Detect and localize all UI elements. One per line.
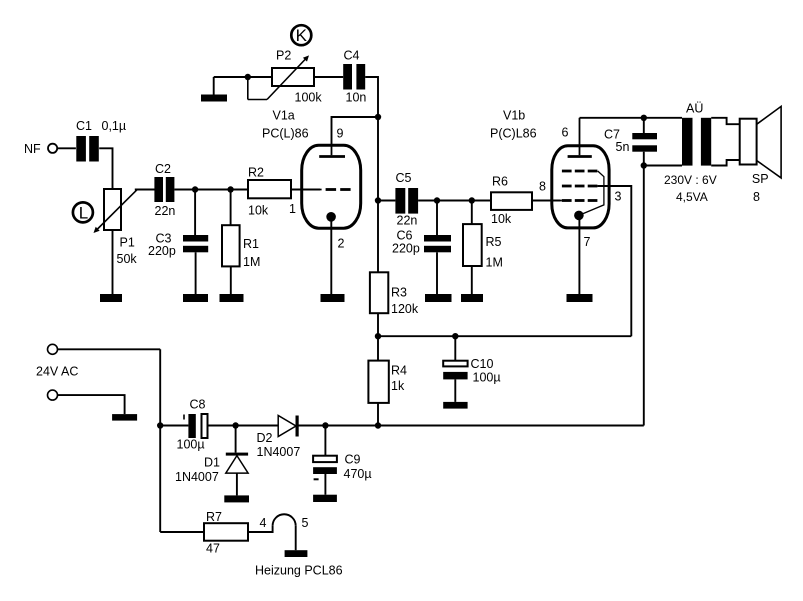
node junction R1 bbox=[227, 186, 233, 192]
node junction C10 bbox=[452, 333, 458, 339]
svg-text:10k: 10k bbox=[248, 204, 269, 218]
svg-text:C10: C10 bbox=[471, 357, 494, 371]
ground (C9) bbox=[313, 495, 337, 502]
wire C5 to R6 bbox=[418, 200, 491, 202]
wire junction to R1 bbox=[230, 190, 232, 226]
svg-text:1k: 1k bbox=[391, 379, 405, 393]
svg-text:4,5VA: 4,5VA bbox=[676, 190, 708, 204]
wire P1 bottom bbox=[112, 230, 114, 294]
svg-text:470µ: 470µ bbox=[344, 467, 372, 481]
wire supply rail bbox=[298, 425, 643, 427]
node junction C7 top bbox=[641, 115, 647, 121]
svg-text:230V : 6V: 230V : 6V bbox=[664, 173, 717, 187]
wire junction to C5 bbox=[378, 200, 395, 202]
node junction C9 bbox=[322, 422, 328, 428]
svg-text:24V AC: 24V AC bbox=[36, 365, 78, 379]
terminal 24V AC (bottom) bbox=[48, 390, 125, 414]
svg-text:C4: C4 bbox=[344, 49, 360, 63]
svg-text:1M: 1M bbox=[486, 256, 503, 270]
svg-text:5: 5 bbox=[302, 516, 309, 530]
svg-text:7: 7 bbox=[584, 235, 591, 249]
svg-text:10n: 10n bbox=[346, 91, 367, 105]
wire transformer bottom bbox=[644, 165, 682, 167]
svg-text:R4: R4 bbox=[391, 364, 407, 378]
svg-text:R3: R3 bbox=[391, 286, 407, 300]
capacitor C7 bbox=[604, 118, 657, 166]
wire plate V1a bbox=[332, 117, 379, 144]
wire P1 wiper to C2 bbox=[135, 189, 155, 191]
capacitor C3 bbox=[148, 232, 208, 259]
terminal 24V AC (top) bbox=[36, 344, 160, 378]
svg-text:220p: 220p bbox=[148, 244, 176, 258]
svg-text:P2: P2 bbox=[276, 49, 291, 63]
diode D2 bbox=[257, 416, 301, 460]
svg-text:1N4007: 1N4007 bbox=[175, 470, 219, 484]
svg-text:10k: 10k bbox=[491, 212, 512, 226]
wire R7 to heater hump bbox=[248, 526, 273, 532]
capacitor C5 bbox=[395, 171, 418, 228]
svg-text:4: 4 bbox=[260, 516, 267, 530]
svg-text:47: 47 bbox=[206, 542, 220, 556]
node junction R4 bottom bbox=[375, 422, 381, 428]
svg-text:R5: R5 bbox=[486, 235, 502, 249]
svg-text:SP: SP bbox=[752, 172, 769, 186]
svg-text:5n: 5n bbox=[616, 140, 630, 154]
pentode V1b bbox=[490, 109, 622, 250]
wire R1 to ground bbox=[230, 266, 232, 294]
capacitor C4 bbox=[343, 49, 366, 105]
svg-text:NF: NF bbox=[24, 142, 41, 156]
svg-text:8: 8 bbox=[539, 180, 546, 194]
resistor R6 bbox=[491, 175, 532, 227]
node junction D1 bbox=[232, 422, 238, 428]
node L (volume knob marker) bbox=[73, 202, 93, 222]
svg-text:C9: C9 bbox=[345, 453, 361, 467]
svg-text:PC(L)86: PC(L)86 bbox=[262, 127, 309, 141]
wire cathode V1b to ground bbox=[578, 215, 580, 294]
svg-text:120k: 120k bbox=[391, 302, 419, 316]
svg-text:100µ: 100µ bbox=[473, 371, 501, 385]
wire heater hump bbox=[273, 514, 296, 526]
node junction R3/R4 bbox=[375, 333, 381, 339]
node junction R5 bbox=[469, 197, 475, 203]
svg-text:C6: C6 bbox=[397, 229, 413, 243]
wire C8 to D1 junction bbox=[208, 425, 279, 427]
svg-text:22n: 22n bbox=[397, 214, 418, 228]
wire plate V1b to transformer bbox=[580, 117, 683, 119]
wire R5 to ground bbox=[471, 266, 473, 294]
svg-text:D2: D2 bbox=[257, 431, 273, 445]
svg-text:R6: R6 bbox=[492, 175, 508, 189]
svg-text:D1: D1 bbox=[204, 456, 220, 470]
speaker SP bbox=[740, 106, 781, 204]
svg-text:8: 8 bbox=[753, 190, 760, 204]
svg-text:K: K bbox=[296, 26, 308, 45]
node junction rail left bbox=[157, 422, 163, 428]
ground (V1b cathode) bbox=[567, 294, 593, 302]
ground (D1) bbox=[224, 495, 249, 502]
node junction C5 row bbox=[375, 197, 381, 203]
wire C3 to ground bbox=[195, 252, 197, 294]
transformer AÜ bbox=[664, 102, 717, 205]
wire P2 to C4 bbox=[314, 76, 343, 78]
resistor R2 bbox=[248, 166, 291, 218]
capacitor C6 bbox=[392, 229, 451, 256]
diode D1 bbox=[175, 426, 248, 496]
svg-text:6: 6 bbox=[562, 126, 569, 140]
wire heater feed to R7 bbox=[160, 531, 204, 533]
resistor R1 bbox=[222, 225, 260, 269]
node junction P2 wiper bbox=[245, 74, 251, 80]
wire C7 junction down to supply rail bbox=[643, 166, 645, 426]
svg-text:50k: 50k bbox=[117, 252, 138, 266]
wire screen grid V1b to feedback rail bbox=[597, 186, 631, 336]
svg-text:P1: P1 bbox=[120, 236, 135, 250]
ground (P1) bbox=[100, 294, 122, 302]
ground (C3) bbox=[183, 294, 208, 302]
svg-text:100k: 100k bbox=[295, 91, 323, 105]
ground (V1a cathode) bbox=[321, 294, 345, 302]
svg-text:9: 9 bbox=[337, 127, 344, 141]
ground (heater) bbox=[285, 550, 308, 557]
svg-text:100µ: 100µ bbox=[177, 438, 205, 452]
capacitor C2 bbox=[154, 162, 175, 218]
svg-text:C8: C8 bbox=[190, 398, 206, 412]
capacitor C1 bbox=[76, 119, 126, 162]
wire ground to P2 bbox=[214, 76, 272, 78]
terminal NF input bbox=[24, 142, 76, 156]
svg-text:R1: R1 bbox=[243, 237, 259, 251]
capacitor C10 (electrolytic) bbox=[443, 336, 500, 402]
ground (R1) bbox=[220, 294, 244, 302]
wire hump to ground bbox=[295, 526, 297, 550]
wire C4 right, down to R3 bbox=[365, 77, 378, 272]
wire terminal to rail and heater bbox=[159, 349, 161, 532]
capacitor C8 (electrolytic) bbox=[177, 398, 208, 452]
node junction C3 bbox=[192, 186, 198, 192]
wire feedback rail bbox=[378, 335, 631, 337]
wire C6 to ground bbox=[436, 252, 438, 294]
wire rail junction to C8 bbox=[160, 425, 188, 427]
wire R3 to rail bbox=[377, 313, 379, 336]
node K (tone knob marker) bbox=[291, 25, 311, 45]
node junction C7 bottom bbox=[641, 162, 647, 168]
svg-text:C2: C2 bbox=[155, 162, 171, 176]
ground (C6) bbox=[425, 294, 452, 302]
wire junction to R5 bbox=[471, 201, 473, 225]
potentiometer P2 bbox=[248, 49, 323, 105]
capacitor C9 (electrolytic) bbox=[313, 426, 371, 495]
svg-text:2: 2 bbox=[338, 237, 345, 251]
svg-text:Heizung PCL86: Heizung PCL86 bbox=[255, 564, 343, 578]
resistor R3 bbox=[370, 272, 419, 316]
resistor R7 bbox=[204, 510, 248, 556]
wire C2 to R2 bbox=[174, 189, 248, 191]
svg-text:R2: R2 bbox=[248, 166, 264, 180]
svg-text:V1a: V1a bbox=[273, 109, 295, 123]
node junction C6 bbox=[434, 197, 440, 203]
svg-text:3: 3 bbox=[615, 190, 622, 204]
triode V1a bbox=[262, 109, 361, 251]
svg-text:0,1µ: 0,1µ bbox=[102, 119, 127, 133]
wire junction to C3 bbox=[194, 190, 196, 236]
resistor R4 bbox=[368, 336, 407, 425]
wire R6 to grid V1b bbox=[532, 200, 560, 202]
wire C1 to P1 bbox=[99, 148, 112, 189]
svg-text:C5: C5 bbox=[396, 171, 412, 185]
potentiometer P1 bbox=[94, 189, 138, 266]
svg-text:220p: 220p bbox=[392, 242, 420, 256]
svg-text:1N4007: 1N4007 bbox=[257, 445, 301, 459]
svg-text:R7: R7 bbox=[206, 510, 222, 524]
node anode V1a junction bbox=[375, 114, 381, 120]
wire secondary bottom to speaker bbox=[711, 160, 740, 166]
svg-text:1: 1 bbox=[289, 202, 296, 216]
ground (C10) bbox=[443, 402, 467, 409]
wire cathode V1a to ground bbox=[330, 216, 332, 294]
svg-text:AÜ: AÜ bbox=[686, 102, 703, 116]
ground (R5) bbox=[461, 294, 483, 302]
wire R2 to grid V1a bbox=[291, 189, 320, 191]
resistor R5 bbox=[463, 224, 503, 269]
wire secondary top to speaker bbox=[711, 118, 740, 124]
svg-text:22n: 22n bbox=[155, 204, 176, 218]
svg-text:1M: 1M bbox=[243, 255, 260, 269]
ground (top, P2 left) bbox=[201, 77, 227, 102]
svg-text:P(C)L86: P(C)L86 bbox=[490, 127, 537, 141]
svg-text:V1b: V1b bbox=[503, 109, 525, 123]
ground (24V AC) bbox=[112, 414, 137, 421]
wire junction to C6 bbox=[436, 201, 438, 236]
svg-text:C1: C1 bbox=[76, 119, 92, 133]
svg-text:L: L bbox=[79, 203, 88, 222]
